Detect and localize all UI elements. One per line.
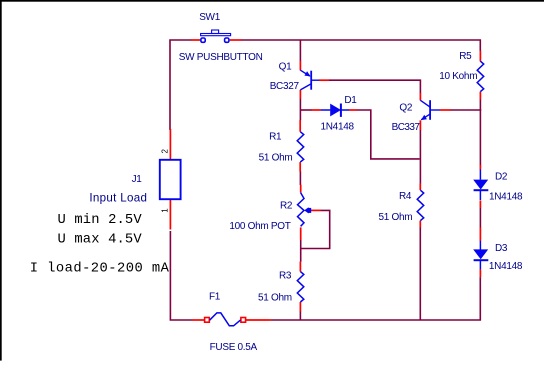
pin Q2 emitter	[419, 120, 421, 130]
svg-text:R1: R1	[269, 132, 282, 143]
resistor R5	[477, 61, 484, 91]
wire Q2 base to right rail	[450, 109, 481, 111]
pin F1 left	[192, 319, 204, 321]
pin Q1 emitter	[299, 61, 301, 71]
wire R4 to bottom rail	[419, 227, 421, 320]
R2 wiper arrow	[304, 207, 311, 213]
pin Q2 base	[440, 109, 451, 111]
wire Q2 emitter to R4	[419, 130, 421, 184]
wire R3 to bottom rail	[299, 311, 301, 320]
border frame left	[0, 0, 2, 361]
wire right rail R5 to D2	[479, 99, 481, 165]
resistor R1	[297, 132, 304, 162]
svg-text:R4: R4	[399, 191, 412, 202]
transistor Q1 BC327	[300, 70, 319, 90]
pin R2 top	[300, 185, 302, 193]
svg-text:2: 2	[161, 149, 170, 154]
svg-text:51 Ohm: 51 Ohm	[379, 212, 413, 223]
wire bottom rail	[271, 277, 480, 320]
pin Q2 collector	[419, 93, 421, 100]
pin F1 right	[245, 319, 271, 321]
pin SW1 right	[230, 39, 242, 41]
pin D1 cathode	[349, 109, 357, 111]
svg-text:1: 1	[161, 208, 170, 213]
connector J1	[160, 160, 181, 199]
svg-text:51 Ohm: 51 Ohm	[259, 152, 293, 163]
border frame top	[0, 0, 544, 2]
wire R2 wiper loop	[302, 210, 330, 248]
pin R3 bottom	[299, 302, 301, 312]
pin D3 cathode	[479, 269, 481, 277]
diode D3 1N4148	[473, 241, 488, 269]
svg-text:I load-20-200 mA: I load-20-200 mA	[30, 261, 170, 277]
svg-text:D2: D2	[495, 171, 508, 182]
diode D1 1N4148	[321, 104, 349, 117]
svg-text:R2: R2	[280, 201, 293, 212]
svg-text:R5: R5	[459, 51, 472, 62]
wire R1 to R2	[299, 171, 301, 185]
svg-text:1N4148: 1N4148	[489, 191, 523, 202]
wire D1 anode stub	[300, 109, 311, 111]
svg-text:SW PUSHBUTTON: SW PUSHBUTTON	[179, 52, 263, 63]
resistor R4	[417, 190, 424, 220]
transistor Q2 BC337	[420, 100, 440, 120]
wire node V+ to Q1 emitter	[299, 41, 301, 62]
pin R2 bottom	[300, 227, 302, 240]
pin D1 anode	[311, 109, 321, 111]
switch SW1	[201, 30, 231, 42]
wire top rail left	[170, 40, 191, 130]
wire Q1 collector to R1	[299, 99, 301, 121]
svg-text:1N4148: 1N4148	[321, 121, 355, 132]
svg-text:1N4148: 1N4148	[489, 261, 523, 272]
pin Q1 collector	[299, 90, 301, 99]
wire top rail right	[241, 40, 480, 51]
resistor R2 potentiometer	[298, 193, 305, 227]
resistor R3	[297, 272, 304, 302]
svg-text:Q2: Q2	[399, 102, 412, 113]
svg-text:U max 4.5V: U max 4.5V	[58, 233, 143, 248]
wire Q1 base to Q2 collector	[329, 80, 421, 93]
svg-text:BC327: BC327	[270, 81, 300, 92]
pin R4 top	[419, 184, 421, 191]
pin SW1 left	[191, 39, 200, 41]
svg-text:10 Kohm: 10 Kohm	[439, 71, 477, 82]
pin D2 anode	[479, 165, 481, 170]
pin J1 pin1	[169, 200, 171, 230]
pin D2 cathode	[479, 200, 481, 207]
pin Q1 base	[319, 79, 329, 81]
pin R3 top	[299, 262, 301, 272]
svg-text:BC337: BC337	[392, 122, 421, 133]
pin R1 top	[299, 120, 301, 132]
svg-text:51 Ohm: 51 Ohm	[258, 293, 292, 304]
pin J1 pin2	[169, 129, 171, 160]
svg-text:Q1: Q1	[279, 61, 292, 72]
svg-text:F1: F1	[209, 292, 221, 303]
svg-text:J1: J1	[132, 174, 143, 185]
svg-text:R3: R3	[279, 271, 292, 282]
wire D1 cathode to Q2 emitter net	[357, 110, 420, 159]
svg-text:SW1: SW1	[199, 12, 221, 23]
pin R2 wiper	[311, 209, 321, 211]
wire right rail D2 to D3	[479, 208, 481, 228]
svg-text:100 Ohm POT: 100 Ohm POT	[229, 221, 290, 232]
svg-text:FUSE 0.5A: FUSE 0.5A	[210, 342, 258, 353]
svg-text:Input Load: Input Load	[89, 191, 147, 204]
pin R1 bottom	[299, 162, 301, 171]
pin R5 bottom	[479, 92, 481, 100]
pin D3 anode	[479, 228, 481, 242]
svg-text:U min 2.5V: U min 2.5V	[58, 212, 143, 228]
pin R5 top	[479, 51, 481, 62]
pin R4 bottom	[419, 221, 421, 228]
wire left rail bottom	[170, 231, 192, 320]
svg-text:D3: D3	[495, 243, 508, 254]
wire R2 to R3	[300, 240, 302, 262]
diode D2 1N4148	[473, 169, 488, 200]
svg-text:D1: D1	[344, 95, 357, 106]
fuse F1	[205, 313, 246, 326]
